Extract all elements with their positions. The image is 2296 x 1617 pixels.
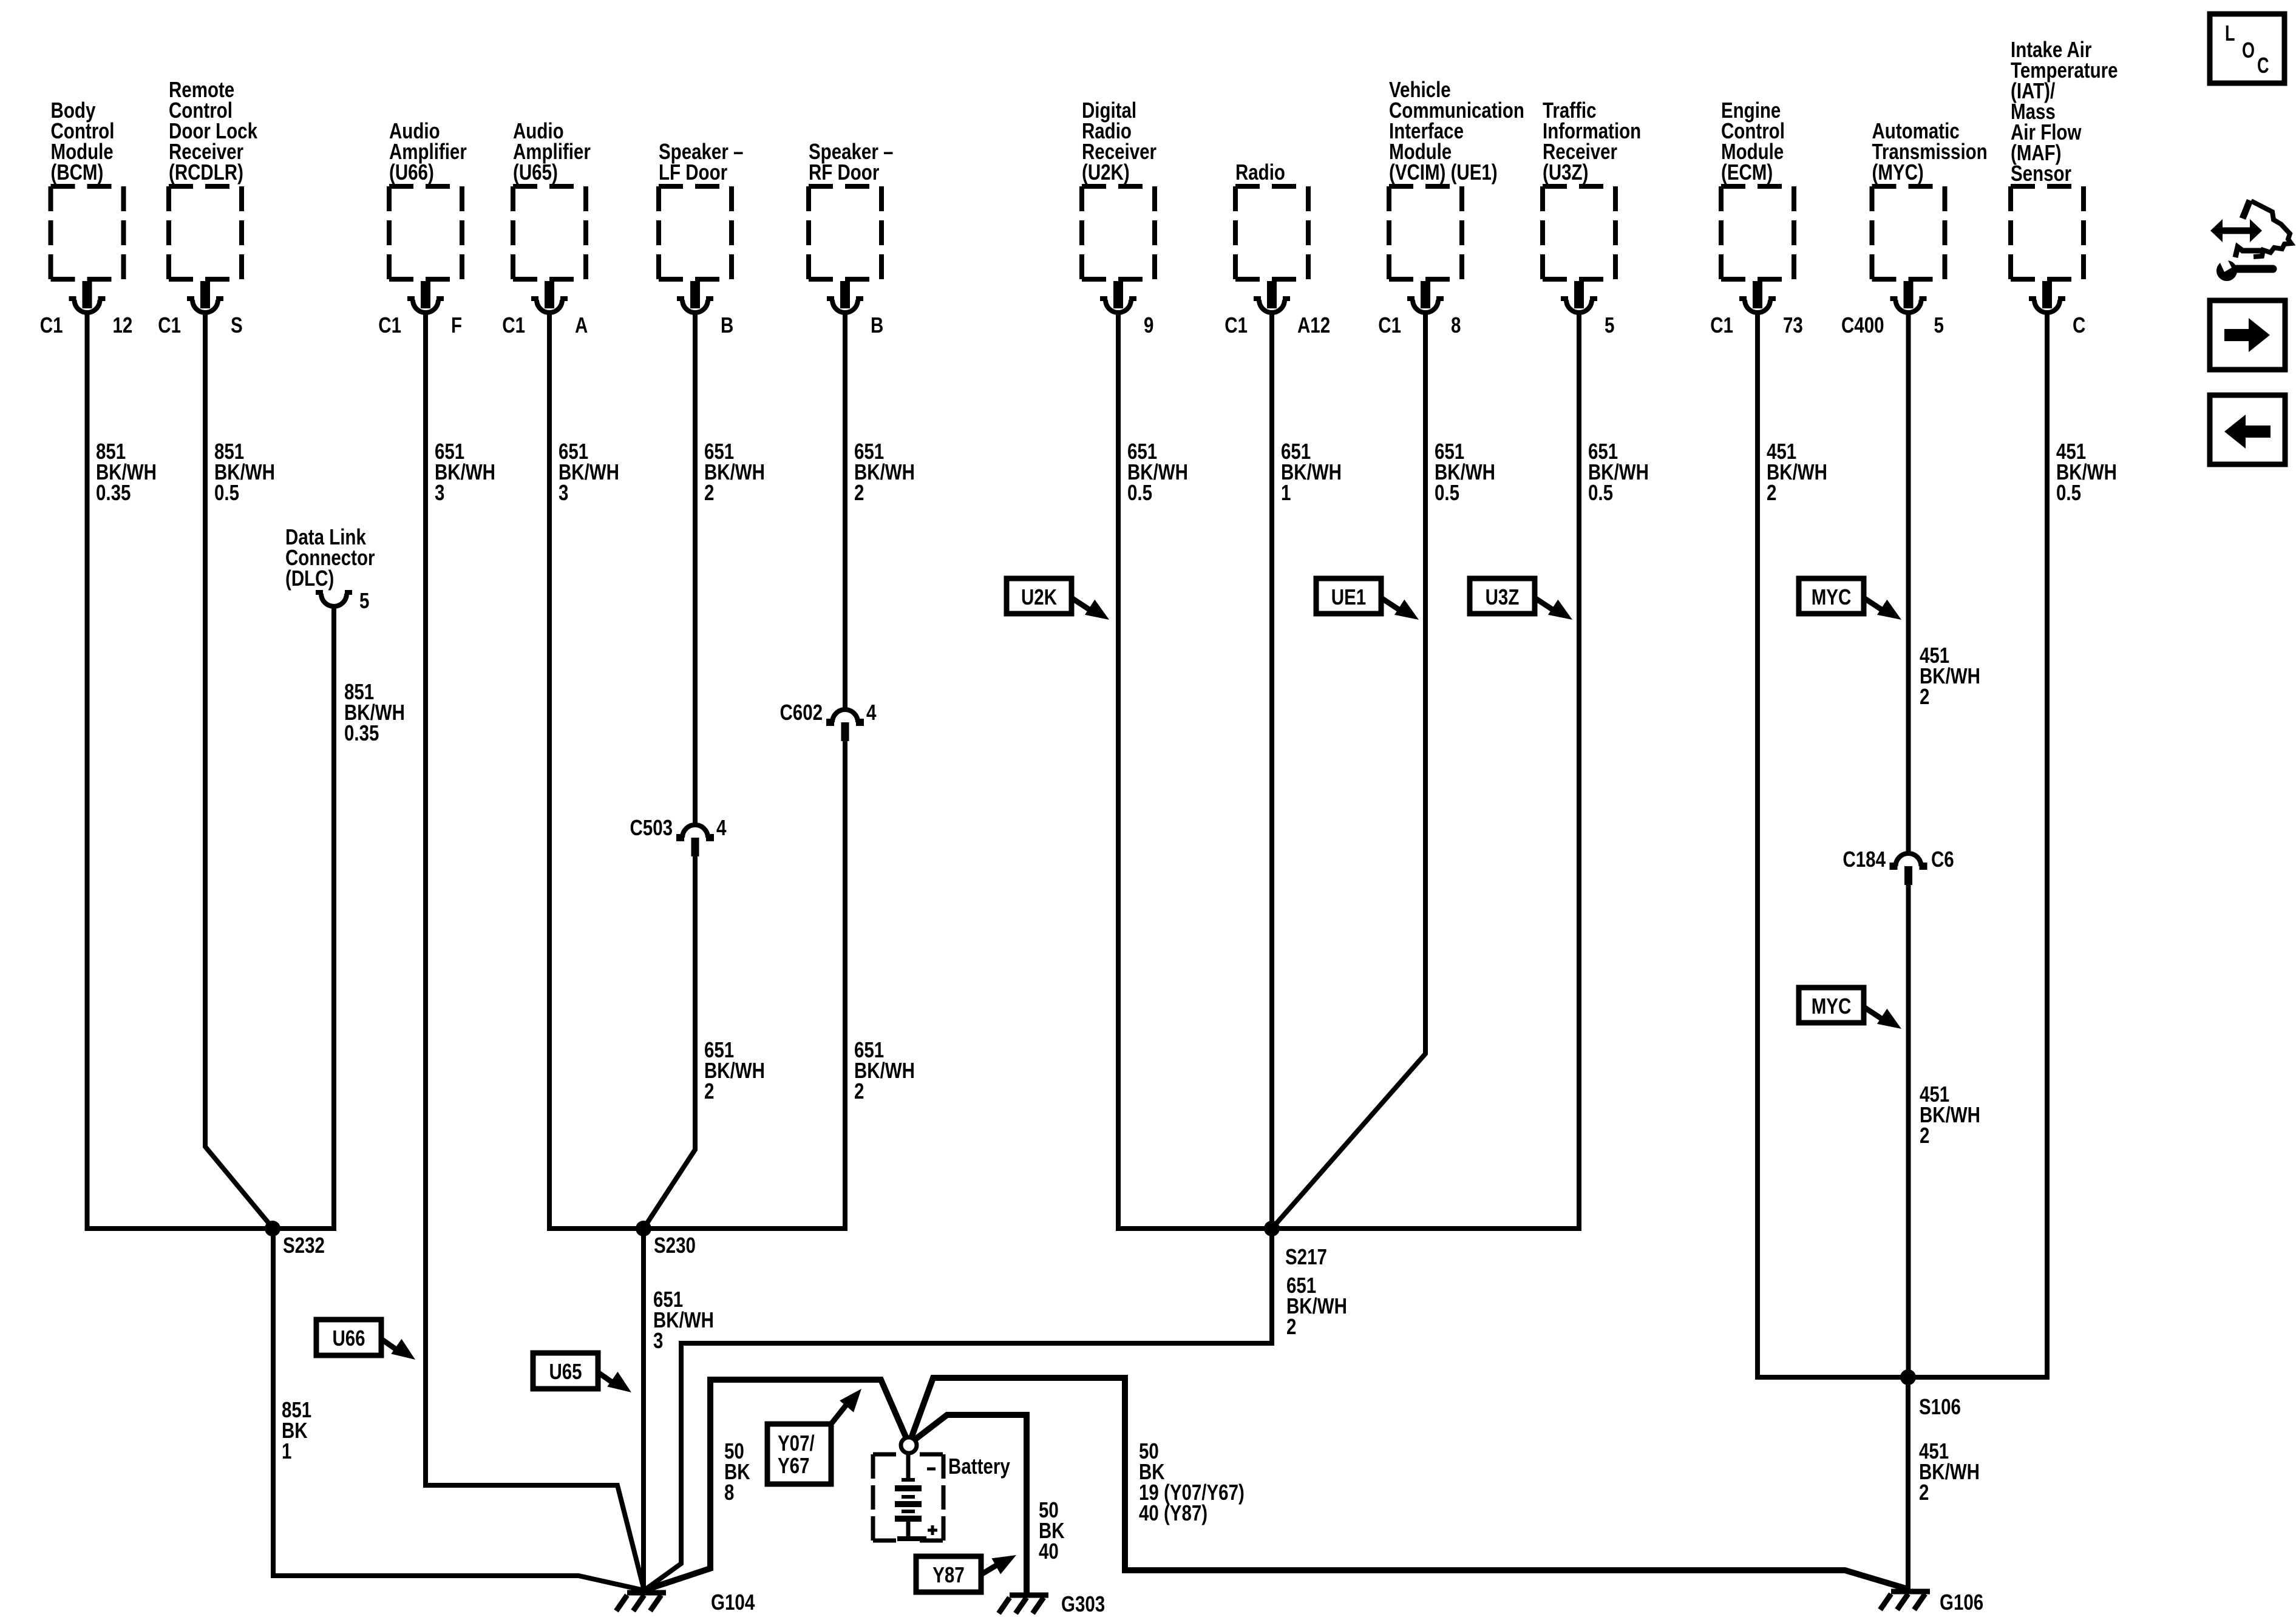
label DLC name <box>285 524 375 591</box>
wire label 651 BK/WH 3 U66 <box>435 439 495 505</box>
svg-text:2: 2 <box>1920 684 1929 709</box>
battery positive terminal node <box>901 1437 917 1453</box>
svg-text:S217: S217 <box>1285 1244 1327 1269</box>
svg-text:L: L <box>2225 21 2235 46</box>
wire 651 BK/WH U2K to S217 <box>1118 313 1272 1229</box>
wire label 651 BK/WH 2 LF lower <box>704 1037 765 1103</box>
wire label 451 BK/WH 2 ECM <box>1767 439 1827 505</box>
svg-text:2: 2 <box>704 480 714 505</box>
module box MYC <box>1872 186 1945 279</box>
wire 50 BK 40 battery to G303 <box>913 1415 1027 1593</box>
connector C503 <box>676 825 714 856</box>
wire label 851 BK/WH 0.35 BCM <box>96 439 157 505</box>
svg-text:0.35: 0.35 <box>344 720 379 745</box>
pin labels IAT <box>2073 313 2085 337</box>
svg-text:0.35: 0.35 <box>96 480 131 505</box>
callout Y87 <box>916 1556 981 1592</box>
svg-text:Y87: Y87 <box>932 1562 965 1587</box>
svg-text:2: 2 <box>1286 1314 1296 1339</box>
svg-text:3: 3 <box>559 480 568 505</box>
wire label 851 BK 1 <box>282 1397 311 1463</box>
svg-text:U66: U66 <box>332 1326 365 1351</box>
svg-text:2: 2 <box>704 1079 714 1103</box>
svg-text:1: 1 <box>282 1439 291 1463</box>
svg-text:Y67: Y67 <box>778 1453 810 1478</box>
svg-text:G303: G303 <box>1061 1592 1105 1616</box>
connector pin IAT <box>2029 281 2065 313</box>
svg-text:S: S <box>231 313 243 337</box>
svg-text:Radio: Radio <box>1235 160 1285 185</box>
wire 451 BK/WH IAT to S106 <box>1908 313 2047 1377</box>
svg-text:(DLC): (DLC) <box>285 566 334 591</box>
junction S217 <box>1264 1221 1280 1236</box>
pin labels U66 <box>378 313 462 337</box>
svg-text:RF Door: RF Door <box>809 160 879 185</box>
pin labels LF <box>721 313 733 337</box>
wire 651 BK/WH U3Z to S217 <box>1272 313 1579 1229</box>
svg-text:(U66): (U66) <box>389 160 434 185</box>
forward arrow box <box>2210 300 2285 370</box>
svg-text:C1: C1 <box>378 313 401 337</box>
connector pin U3Z <box>1561 281 1597 313</box>
svg-text:O: O <box>2242 38 2255 63</box>
battery dashed box <box>873 1454 943 1541</box>
arrow U65 <box>598 1372 637 1400</box>
label U65 name <box>513 118 591 185</box>
wire 851 BK/WH DLC to S232 <box>331 606 336 1229</box>
svg-text:MYC: MYC <box>1812 585 1852 609</box>
wire 651 BK/WH LF speaker to S230 <box>644 313 695 1229</box>
svg-text:C1: C1 <box>1224 313 1248 337</box>
label BCM name <box>51 98 115 185</box>
wire label 651 BK/WH 2 S217 <box>1286 1273 1347 1339</box>
wire label 651 BK/WH 2 LF <box>704 439 765 505</box>
pin label C602 4 <box>866 700 877 725</box>
label LF name <box>659 139 743 185</box>
connector C602 <box>826 710 864 741</box>
module box RF <box>809 186 881 279</box>
connector C184 C6 <box>1890 853 1927 885</box>
module box U66 <box>389 186 462 279</box>
svg-text:Battery: Battery <box>948 1454 1010 1479</box>
svg-text:2: 2 <box>854 1079 864 1103</box>
label C184 <box>1843 847 1886 872</box>
svg-text:(RCDLR): (RCDLR) <box>169 160 243 185</box>
wire 451 BK/WH MYC to S106 <box>1906 313 1911 1377</box>
svg-text:(U65): (U65) <box>513 160 558 185</box>
svg-text:S106: S106 <box>1919 1394 1961 1419</box>
connector pin MYC <box>1890 281 1927 313</box>
svg-text:12: 12 <box>113 313 133 337</box>
arrow U2K <box>1072 598 1114 628</box>
wire 651 BK/WH S230 to G104 <box>641 1229 646 1590</box>
label G303 <box>1061 1592 1105 1616</box>
svg-text:S230: S230 <box>654 1233 696 1258</box>
wire label 651 BK/WH 0.5 VCIM <box>1435 439 1495 505</box>
svg-text:Sensor: Sensor <box>2011 161 2071 186</box>
battery plus sign <box>928 1525 937 1535</box>
pin labels MYC <box>1841 313 1944 337</box>
connector pin U2K <box>1100 281 1136 313</box>
wire 651 BK/WH S217 to G104 <box>644 1229 1272 1590</box>
wire label 651 BK/WH 0.5 U3Z <box>1588 439 1649 505</box>
svg-text:A: A <box>575 313 588 337</box>
wire 651 BK/WH U66 to G104 <box>426 313 644 1590</box>
connector pin VCIM <box>1407 281 1444 313</box>
pin labels U3Z <box>1605 313 1614 337</box>
callout MYC lower <box>1799 988 1864 1023</box>
wire label 651 BK/WH 1 Radio <box>1281 439 1342 505</box>
connector pin LF <box>677 281 713 313</box>
callout U66 <box>316 1320 381 1355</box>
svg-text:4: 4 <box>866 700 877 725</box>
battery cells <box>895 1453 926 1539</box>
svg-text:0.5: 0.5 <box>1588 480 1613 505</box>
arrow UE1 <box>1381 598 1424 628</box>
svg-text:LF Door: LF Door <box>659 160 727 185</box>
wire 851 BK/WH BCM to S232 <box>87 313 337 1229</box>
pin label C503 4 <box>716 815 727 840</box>
svg-text:C1: C1 <box>40 313 63 337</box>
svg-text:5: 5 <box>1934 313 1944 337</box>
svg-text:4: 4 <box>716 815 727 840</box>
label U66 name <box>389 118 467 185</box>
label S230 <box>654 1233 696 1258</box>
pin labels U2K <box>1144 313 1153 337</box>
wire 50 BK 8 G104 to battery <box>644 1380 906 1590</box>
label C602 <box>780 700 823 725</box>
LOC legend box <box>2210 14 2284 83</box>
svg-text:73: 73 <box>1783 313 1803 337</box>
junction S230 <box>636 1221 651 1236</box>
connector DLC <box>316 592 352 606</box>
svg-text:S232: S232 <box>283 1233 325 1258</box>
module box U2K <box>1082 186 1155 279</box>
callout U2K <box>1007 578 1072 614</box>
backward arrow box <box>2210 395 2285 464</box>
junction S106 <box>1900 1369 1916 1385</box>
wire label 451 BK/WH 2 MYC lower <box>1920 1082 1980 1148</box>
wire 651 BK/WH VCIM to S217 <box>1272 313 1425 1229</box>
svg-text:(U2K): (U2K) <box>1082 160 1130 185</box>
wire label 50 BK 8 <box>724 1439 750 1505</box>
label S106 <box>1919 1394 1961 1419</box>
svg-text:C602: C602 <box>780 700 823 725</box>
diagram navigation icon <box>2210 200 2291 281</box>
connector pin Radio <box>1254 281 1290 313</box>
wire 451 BK/WH ECM to S106 <box>1758 313 1908 1377</box>
arrow Y07/Y67 <box>831 1383 868 1424</box>
label S232 <box>283 1233 325 1258</box>
svg-text:C184: C184 <box>1843 847 1886 872</box>
svg-text:40 (Y87): 40 (Y87) <box>1139 1500 1207 1525</box>
label S217 <box>1285 1244 1327 1269</box>
svg-text:C503: C503 <box>630 815 673 840</box>
wire label 651 BK/WH 3 S230 <box>653 1287 714 1353</box>
wire label 651 BK/WH 2 RF lower <box>854 1037 915 1103</box>
arrow MYC upper <box>1864 598 1906 628</box>
svg-text:9: 9 <box>1144 313 1153 337</box>
wire label 651 BK/WH 3 U65 <box>559 439 619 505</box>
callout MYC upper <box>1799 578 1864 614</box>
label ECM name <box>1721 98 1785 185</box>
ground G106 <box>1880 1592 1930 1610</box>
connector pin U66 <box>407 281 444 313</box>
battery minus sign <box>927 1468 936 1471</box>
svg-text:F: F <box>451 313 462 337</box>
wire label 50 BK 19 40 <box>1139 1439 1245 1525</box>
svg-text:(VCIM) (UE1): (VCIM) (UE1) <box>1389 160 1498 185</box>
svg-text:40: 40 <box>1039 1539 1059 1564</box>
module box ECM <box>1721 186 1794 279</box>
svg-text:G104: G104 <box>711 1590 755 1615</box>
junction S232 <box>265 1221 280 1236</box>
svg-text:U3Z: U3Z <box>1486 585 1520 609</box>
pin labels Radio <box>1224 313 1330 337</box>
module box RCDLR <box>169 186 242 279</box>
wire label 651 BK/WH 0.5 U2K <box>1127 439 1188 505</box>
arrow Y87 <box>981 1547 1021 1575</box>
wire 651 BK/WH Radio to S217 <box>1269 313 1274 1229</box>
module box Radio <box>1235 186 1308 279</box>
callout UE1 <box>1316 578 1381 614</box>
wire label 851 BK/WH 0.35 DLC <box>344 679 405 745</box>
module box LF <box>659 186 732 279</box>
svg-text:2: 2 <box>1919 1480 1929 1505</box>
svg-text:(U3Z): (U3Z) <box>1543 160 1588 185</box>
svg-text:(MYC): (MYC) <box>1872 160 1924 185</box>
module box IAT <box>2011 186 2084 279</box>
wire 451 BK/WH S106 to G106 <box>1906 1377 1911 1589</box>
wire 851 BK S232 to G104 <box>273 1229 644 1590</box>
arrow U3Z <box>1535 598 1577 628</box>
svg-text:C1: C1 <box>502 313 525 337</box>
pin label DLC 5 <box>359 588 369 613</box>
callout U65 <box>533 1353 598 1389</box>
label MYC name <box>1872 118 1988 185</box>
wire label 50 BK 40 <box>1039 1497 1065 1564</box>
wire label 451 BK/WH 2 S106 <box>1919 1439 1980 1505</box>
ground G303 <box>999 1595 1048 1613</box>
wire label 851 BK/WH 0.5 RCDLR <box>214 439 275 505</box>
svg-text:8: 8 <box>1451 313 1461 337</box>
svg-text:2: 2 <box>1767 480 1776 505</box>
svg-text:C: C <box>2257 53 2269 78</box>
wire label 451 BK/WH 0.5 IAT <box>2056 439 2117 505</box>
svg-text:U65: U65 <box>549 1359 582 1384</box>
label RCDLR name <box>169 77 258 185</box>
wire label 651 BK/WH 2 RF <box>854 439 915 505</box>
svg-text:0.5: 0.5 <box>1127 480 1152 505</box>
label VCIM name <box>1389 77 1524 185</box>
svg-text:B: B <box>871 313 883 337</box>
wire label 451 BK/WH 2 MYC upper <box>1920 643 1980 709</box>
connector pin ECM <box>1739 281 1776 313</box>
svg-text:Y07/: Y07/ <box>778 1431 815 1456</box>
label RF name <box>809 139 893 185</box>
svg-text:G106: G106 <box>1940 1590 1983 1615</box>
pin labels U65 <box>502 313 588 337</box>
svg-text:U2K: U2K <box>1021 585 1057 609</box>
svg-text:5: 5 <box>1605 313 1614 337</box>
svg-text:A12: A12 <box>1297 313 1330 337</box>
module box BCM <box>51 186 124 279</box>
svg-text:(ECM): (ECM) <box>1721 160 1773 185</box>
connector pin RCDLR <box>187 281 223 313</box>
label U3Z name <box>1543 98 1641 185</box>
pin labels ECM <box>1710 313 1803 337</box>
svg-text:C6: C6 <box>1931 847 1954 872</box>
arrow MYC lower <box>1864 1007 1906 1037</box>
svg-text:UE1: UE1 <box>1331 585 1366 609</box>
pin labels RF <box>871 313 883 337</box>
svg-text:C1: C1 <box>158 313 181 337</box>
svg-text:5: 5 <box>359 588 369 613</box>
label G104 <box>711 1590 755 1615</box>
svg-text:C1: C1 <box>1710 313 1733 337</box>
svg-text:C1: C1 <box>1378 313 1401 337</box>
arrow U66 <box>381 1339 421 1367</box>
svg-text:C400: C400 <box>1841 313 1884 337</box>
svg-text:3: 3 <box>653 1328 663 1353</box>
label U2K name <box>1082 98 1156 185</box>
pin labels BCM <box>40 313 133 337</box>
svg-text:1: 1 <box>1281 480 1291 505</box>
pin labels VCIM <box>1378 313 1461 337</box>
wire 651 BK/WH RF speaker to S230 <box>644 313 845 1229</box>
connector pin U65 <box>531 281 568 313</box>
svg-text:3: 3 <box>435 480 444 505</box>
callout U3Z <box>1470 578 1535 614</box>
connector pin BCM <box>69 281 106 313</box>
svg-text:0.5: 0.5 <box>2056 480 2081 505</box>
module box U65 <box>513 186 586 279</box>
label C6 <box>1931 847 1954 872</box>
label IAT name <box>2011 37 2118 186</box>
label Battery <box>948 1454 1010 1479</box>
ground G104 <box>616 1593 666 1611</box>
svg-text:2: 2 <box>1920 1123 1929 1148</box>
label G106 <box>1940 1590 1983 1615</box>
wire 651 BK/WH U65 to S230 <box>549 313 644 1229</box>
svg-text:(BCM): (BCM) <box>51 160 104 185</box>
label C503 <box>630 815 673 840</box>
module box VCIM <box>1389 186 1462 279</box>
svg-text:2: 2 <box>854 480 864 505</box>
wire 851 BK/WH RCDLR to S232 <box>205 313 273 1229</box>
connector pin RF <box>827 281 863 313</box>
wire 50 BK 19/40 battery to G106 <box>911 1378 1908 1589</box>
pin labels RCDLR <box>158 313 242 337</box>
svg-text:MYC: MYC <box>1812 994 1852 1019</box>
label Radio name <box>1235 160 1285 185</box>
svg-text:C: C <box>2073 313 2085 337</box>
callout Y07/Y67 <box>767 1424 831 1484</box>
svg-text:B: B <box>721 313 733 337</box>
svg-text:8: 8 <box>724 1480 734 1505</box>
svg-text:0.5: 0.5 <box>214 480 239 505</box>
module box U3Z <box>1543 186 1615 279</box>
svg-text:0.5: 0.5 <box>1435 480 1459 505</box>
